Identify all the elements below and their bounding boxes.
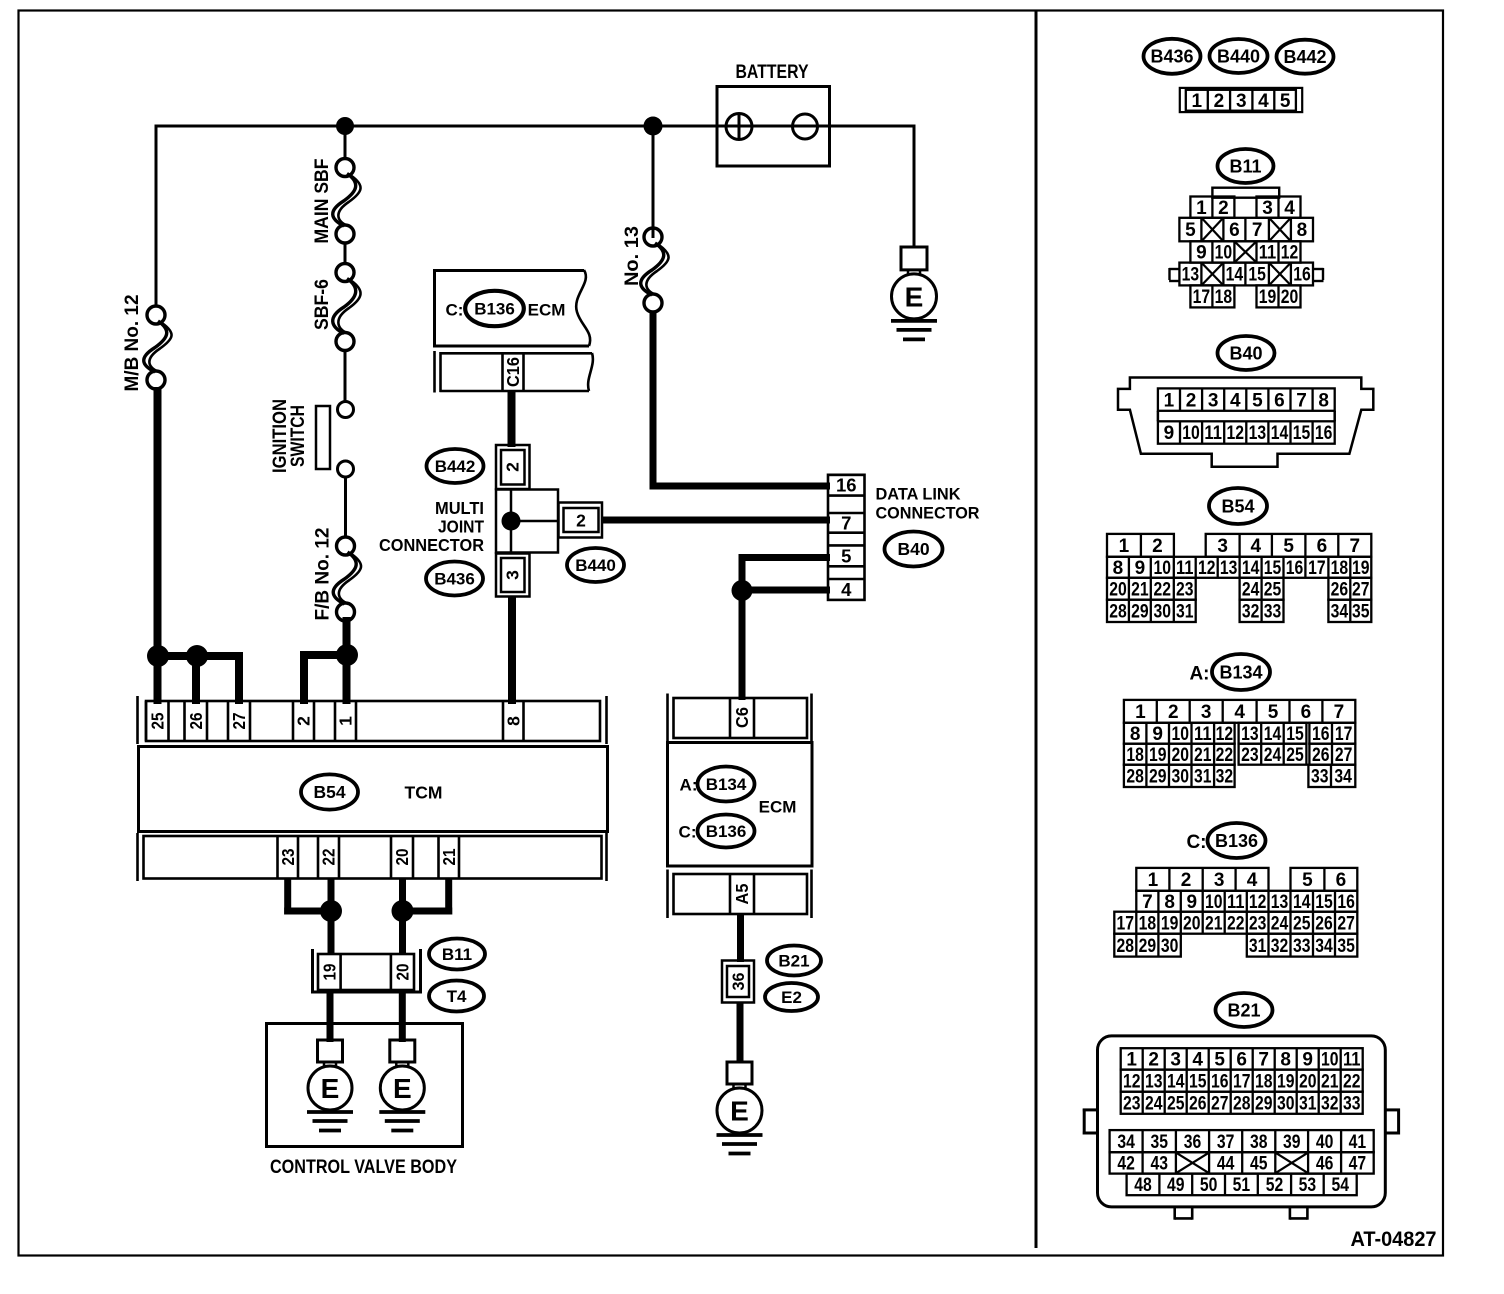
label B440 view [1210,39,1268,73]
svg-text:29: 29 [1149,767,1167,788]
wire A5 to connector 36 [737,914,744,962]
svg-text:1: 1 [1126,1050,1137,1071]
svg-text:12: 12 [1123,1071,1141,1092]
wire node D to pin20 T4 [399,911,406,955]
svg-text:26: 26 [186,712,206,729]
ECM A5 connector strip [668,870,812,919]
svg-text:34: 34 [1331,602,1349,623]
svg-text:8: 8 [1318,390,1329,411]
data link connector B40 pins 16/7/5/4 [828,475,865,600]
label B21 oval [767,946,821,976]
svg-text:B54: B54 [313,782,345,802]
svg-text:B134: B134 [1219,662,1262,682]
wire node to ECM C6 [739,590,746,700]
svg-text:17: 17 [1117,913,1135,934]
svg-text:39: 39 [1283,1132,1301,1153]
svg-text:15: 15 [1315,892,1333,913]
svg-text:3: 3 [1262,198,1273,219]
svg-text:F/B No. 12: F/B No. 12 [311,527,333,620]
label A: B134 [680,767,755,802]
svg-text:14: 14 [1271,423,1289,444]
svg-text:13: 13 [1271,892,1289,913]
svg-text:C:: C: [446,301,464,320]
svg-text:1: 1 [336,716,356,726]
label M/B No.12 [121,294,143,391]
svg-text:10: 10 [1205,892,1223,913]
label B436 [426,562,483,596]
svg-text:30: 30 [1277,1093,1295,1114]
connector B11/T4 housing [311,949,422,994]
svg-text:16: 16 [1315,423,1333,444]
TCM body [139,747,608,832]
svg-text:6: 6 [1301,702,1312,723]
pin C16 [503,353,524,392]
svg-text:2: 2 [1168,702,1179,723]
svg-text:B134: B134 [706,775,747,794]
svg-text:8: 8 [503,716,523,726]
svg-text:5: 5 [1252,390,1263,411]
label B40 view [1218,336,1275,370]
wire F/B No.12 to node B [343,617,351,660]
label SBF-6 [311,279,333,330]
MJC internal node [502,512,521,531]
svg-text:9: 9 [1152,724,1163,745]
svg-text:29: 29 [1131,602,1149,623]
svg-text:MULTI: MULTI [435,498,484,518]
svg-text:24: 24 [1145,1093,1163,1114]
wire node to DLC pin5 [739,554,831,594]
svg-text:50: 50 [1200,1175,1218,1196]
label E2 oval [765,983,818,1011]
svg-text:20: 20 [392,963,412,980]
pin A5 [730,874,754,914]
battery negative terminal [793,114,818,139]
label B11 view [1218,149,1274,183]
svg-text:11: 11 [1176,558,1194,579]
svg-text:3: 3 [1170,1050,1181,1071]
svg-text:B54: B54 [1221,496,1254,516]
wire node B to pin2/pin1 [300,651,351,704]
svg-text:8: 8 [1113,558,1124,579]
svg-text:32: 32 [1242,602,1260,623]
TCM upper pins 25/26/27/2/1/8 [146,701,524,741]
wire bus battery feed [156,125,916,308]
svg-text:18: 18 [1215,287,1233,308]
pin 19 [319,954,340,990]
svg-text:33: 33 [1293,936,1311,957]
battery positive terminal [726,114,752,140]
svg-text:2: 2 [503,462,523,472]
svg-text:24: 24 [1264,745,1282,766]
svg-text:11: 11 [1259,243,1277,264]
svg-text:22: 22 [1216,745,1234,766]
svg-text:12: 12 [1281,243,1299,264]
svg-text:26: 26 [1331,579,1349,600]
fuse M/B No.12 [144,306,172,389]
svg-text:9: 9 [1196,243,1207,264]
svg-text:34: 34 [1117,1132,1135,1153]
svg-text:4: 4 [1192,1050,1203,1071]
svg-text:53: 53 [1299,1175,1317,1196]
svg-text:25: 25 [1264,579,1282,600]
label A:B134 view [1189,654,1270,690]
svg-text:40: 40 [1316,1132,1334,1153]
svg-text:31: 31 [1249,936,1267,957]
svg-text:34: 34 [1315,936,1333,957]
label DATA LINK CONNECTOR [876,485,980,523]
svg-text:33: 33 [1343,1093,1361,1114]
svg-text:8: 8 [1164,892,1175,913]
svg-text:41: 41 [1349,1132,1367,1153]
svg-text:B21: B21 [778,951,809,970]
svg-text:36: 36 [1184,1132,1202,1153]
svg-text:C6: C6 [732,707,752,728]
svg-text:8: 8 [1280,1050,1291,1071]
svg-text:19: 19 [1161,913,1179,934]
connector B11 pin grid [1169,188,1323,308]
svg-text:14: 14 [1242,558,1260,579]
svg-text:10: 10 [1182,423,1200,444]
svg-text:25: 25 [1293,913,1311,934]
svg-text:6: 6 [1336,870,1347,891]
svg-text:28: 28 [1233,1093,1251,1114]
svg-text:16: 16 [1312,724,1330,745]
wire MAIN SBF to SBF-6 [344,243,347,264]
svg-text:46: 46 [1316,1154,1334,1175]
wire node to DLC pin4 [742,587,830,594]
svg-text:11: 11 [1204,423,1222,444]
svg-text:10: 10 [1321,1050,1339,1071]
svg-text:25: 25 [1167,1093,1185,1114]
wire pin22 to node C [328,879,335,911]
svg-text:9: 9 [1302,1050,1313,1071]
svg-text:12: 12 [1249,892,1267,913]
svg-text:47: 47 [1349,1154,1367,1175]
label T4 oval [429,981,484,1012]
svg-text:31: 31 [1299,1093,1317,1114]
svg-text:22: 22 [1343,1071,1361,1092]
fuse F/B No.12 [333,537,361,621]
svg-text:ECM: ECM [759,798,797,817]
svg-text:4: 4 [841,579,852,600]
svg-text:43: 43 [1151,1154,1169,1175]
svg-text:16: 16 [1211,1071,1229,1092]
svg-text:ECM: ECM [528,301,566,320]
svg-text:No. 13: No. 13 [621,226,643,286]
svg-text:38: 38 [1250,1132,1268,1153]
connector A:B134 pin grid [1124,700,1355,788]
pin C6 [730,698,754,738]
svg-text:7: 7 [1334,702,1345,723]
svg-text:27: 27 [1352,579,1370,600]
svg-text:21: 21 [1205,913,1223,934]
svg-text:12: 12 [1216,724,1234,745]
svg-text:6: 6 [1229,220,1240,241]
svg-text:5: 5 [1280,91,1291,112]
svg-text:22: 22 [1154,579,1172,600]
svg-text:T4: T4 [447,987,467,1006]
wire SBF-6 to ignition switch [344,350,347,402]
svg-text:42: 42 [1117,1154,1135,1175]
svg-text:C:: C: [679,823,697,842]
wire node C to pin19 [328,911,335,955]
svg-text:2: 2 [1218,198,1229,219]
svg-text:23: 23 [1241,745,1259,766]
panel divider [1035,11,1038,1248]
wire pin19 to control valve body [327,990,334,1042]
svg-text:10: 10 [1172,724,1190,745]
svg-text:11: 11 [1343,1050,1361,1071]
svg-text:14: 14 [1293,892,1311,913]
connector B21 housing [1083,1036,1400,1220]
svg-text:3: 3 [503,570,523,580]
ignition switch contact lower [338,461,354,477]
node junction MAIN SBF tap [336,117,354,135]
ground E battery [891,247,937,339]
label C: B136 [679,815,755,848]
svg-text:22: 22 [1227,913,1245,934]
MJC pin 2 upper [496,445,530,489]
wire M/B No.12 to node A [154,387,162,660]
svg-text:7: 7 [1142,892,1153,913]
svg-text:11: 11 [1227,892,1245,913]
svg-text:9: 9 [1164,423,1175,444]
svg-text:31: 31 [1176,602,1194,623]
svg-text:E: E [905,281,924,312]
svg-text:23: 23 [1249,913,1267,934]
svg-text:5: 5 [1268,702,1279,723]
svg-text:2: 2 [1148,1050,1159,1071]
svg-text:7: 7 [1350,536,1361,557]
svg-text:M/B No. 12: M/B No. 12 [121,294,143,391]
MJC pin 2 right [559,503,603,538]
wire connector36 to ground [737,1002,744,1063]
ignition switch contact upper [338,402,354,418]
svg-text:17: 17 [1335,724,1353,745]
svg-text:4: 4 [1250,536,1261,557]
label B440 [567,548,624,582]
svg-text:BATTERY: BATTERY [736,62,809,83]
wire node A to pin26/pin27 [154,652,243,704]
svg-text:CONTROL VALVE BODY: CONTROL VALVE BODY [270,1157,457,1178]
svg-text:JOINT: JOINT [438,517,484,537]
MJC body [496,490,558,553]
svg-text:19: 19 [319,963,339,980]
svg-text:B442: B442 [435,457,476,476]
svg-text:18: 18 [1139,913,1157,934]
label B40 oval [885,532,943,567]
node C junction [320,900,342,922]
svg-text:16: 16 [1286,558,1304,579]
svg-text:35: 35 [1337,936,1355,957]
svg-text:B440: B440 [575,556,616,575]
svg-text:54: 54 [1331,1175,1349,1196]
svg-text:B11: B11 [442,945,472,964]
svg-text:30: 30 [1172,767,1190,788]
label CONTROL VALVE BODY [270,1157,457,1178]
ignition switch [316,406,330,469]
svg-text:B136: B136 [474,299,515,318]
svg-text:13: 13 [1182,265,1200,286]
fuse MAIN SBF [333,159,361,244]
svg-text:5: 5 [1185,220,1196,241]
svg-text:3: 3 [1236,91,1247,112]
svg-text:14: 14 [1167,1071,1185,1092]
svg-text:13: 13 [1249,423,1267,444]
svg-text:SBF-6: SBF-6 [311,279,333,330]
svg-text:TCM: TCM [405,783,443,803]
svg-text:36: 36 [730,973,748,991]
svg-text:15: 15 [1248,265,1266,286]
svg-text:14: 14 [1226,265,1244,286]
svg-text:5: 5 [1302,870,1313,891]
svg-text:B436: B436 [434,569,475,588]
svg-text:4: 4 [1247,870,1258,891]
svg-text:1: 1 [1164,390,1175,411]
TCM upper pin row [138,696,607,744]
svg-text:48: 48 [1134,1175,1152,1196]
svg-text:7: 7 [841,512,851,533]
svg-text:3: 3 [1208,390,1219,411]
wire No.13 to DLC pin16 [650,311,830,490]
label C:B136 view [1186,823,1265,858]
ECM C6 connector strip [668,694,812,743]
TCM lower pin row [138,833,607,881]
svg-text:16: 16 [836,475,857,496]
svg-text:3: 3 [1201,702,1212,723]
svg-text:2: 2 [576,511,586,531]
battery [717,62,830,166]
svg-text:6: 6 [1317,536,1328,557]
ECM upper block [433,269,590,347]
svg-text:19: 19 [1352,558,1370,579]
svg-text:9: 9 [1186,892,1197,913]
svg-text:30: 30 [1161,936,1179,957]
connector C:B136 pin grid [1114,868,1357,957]
svg-text:2: 2 [1214,91,1225,112]
svg-text:19: 19 [1259,287,1277,308]
svg-text:13: 13 [1220,558,1238,579]
wire MJC pin2 to DLC pin7 [602,517,830,524]
label IGNITION SWITCH [269,399,309,473]
svg-text:20: 20 [1109,579,1127,600]
node junction DLC 5/4/C6 [732,580,753,601]
control valve body box [267,1024,463,1147]
svg-text:B436: B436 [1150,47,1193,67]
svg-text:17: 17 [1308,558,1326,579]
ground E valve body right [379,1040,425,1131]
svg-text:18: 18 [1331,558,1349,579]
svg-text:6: 6 [1236,1050,1247,1071]
wire ignition switch to F/B No.12 [344,477,347,538]
svg-text:33: 33 [1311,767,1329,788]
label B54 oval [301,774,358,809]
label AT-04827 [1351,1227,1437,1251]
ground E valve body left [307,1040,353,1131]
svg-text:15: 15 [1293,423,1311,444]
svg-text:B442: B442 [1283,47,1326,67]
svg-text:45: 45 [1250,1154,1268,1175]
ECM upper connector strip [435,351,593,393]
svg-text:SWITCH: SWITCH [287,405,309,467]
label No.13 [621,226,643,286]
svg-text:23: 23 [1123,1093,1141,1114]
svg-text:20: 20 [1299,1071,1317,1092]
svg-text:35: 35 [1352,602,1370,623]
svg-text:MAIN SBF: MAIN SBF [311,158,333,243]
svg-text:25: 25 [147,712,167,729]
svg-text:21: 21 [1131,579,1149,600]
pin 20 [391,954,413,990]
svg-text:2: 2 [1186,390,1197,411]
svg-text:10: 10 [1215,243,1233,264]
svg-text:18: 18 [1126,745,1144,766]
svg-text:A:: A: [1189,664,1209,685]
svg-text:15: 15 [1286,724,1304,745]
label C: B136 ECM upper [446,291,566,326]
svg-text:31: 31 [1194,767,1212,788]
svg-text:11: 11 [1194,724,1212,745]
svg-text:E: E [321,1073,340,1104]
svg-text:14: 14 [1264,724,1282,745]
svg-text:1: 1 [1196,198,1207,219]
svg-text:CONNECTOR: CONNECTOR [379,535,484,555]
svg-text:21: 21 [439,848,459,865]
svg-text:B136: B136 [1215,831,1258,851]
svg-text:4: 4 [1234,702,1245,723]
svg-text:B40: B40 [897,539,929,559]
svg-text:9: 9 [1135,558,1146,579]
svg-text:23: 23 [1176,579,1194,600]
svg-text:23: 23 [278,848,298,865]
svg-text:B11: B11 [1229,156,1261,176]
svg-text:E2: E2 [781,988,802,1007]
svg-text:15: 15 [1264,558,1282,579]
svg-text:3: 3 [1217,536,1228,557]
svg-text:20: 20 [1183,913,1201,934]
label TCM [405,783,443,803]
node A junction pin25 [147,645,169,667]
label B21 view [1216,993,1273,1027]
label B442 view [1277,40,1334,74]
svg-text:4: 4 [1230,390,1241,411]
ground E2 symbol [717,1062,763,1154]
fuse No.13 [641,228,669,312]
svg-text:15: 15 [1189,1071,1207,1092]
svg-text:CONNECTOR: CONNECTOR [876,504,980,523]
svg-text:19: 19 [1149,745,1167,766]
svg-text:C16: C16 [503,357,523,387]
label MULTI JOINT CONNECTOR [379,498,484,555]
TCM lower pins 23/22/20/21 [278,836,460,879]
connector B436/B440/B442 pins 1-5 [1180,88,1302,112]
svg-text:29: 29 [1255,1093,1273,1114]
svg-text:A5: A5 [732,883,752,904]
wire pin20 to node D [399,879,406,911]
svg-text:26: 26 [1315,913,1333,934]
wire pin21 to node D [400,879,452,915]
svg-text:4: 4 [1258,91,1269,112]
label B442 [427,449,484,483]
svg-text:21: 21 [1194,745,1212,766]
connector B21 pin grid [1110,1048,1374,1196]
svg-text:44: 44 [1217,1154,1235,1175]
label B436 view [1144,39,1201,74]
svg-text:6: 6 [1274,390,1285,411]
svg-text:B40: B40 [1229,343,1262,363]
svg-text:5: 5 [841,545,851,566]
svg-text:C:: C: [1186,832,1206,853]
